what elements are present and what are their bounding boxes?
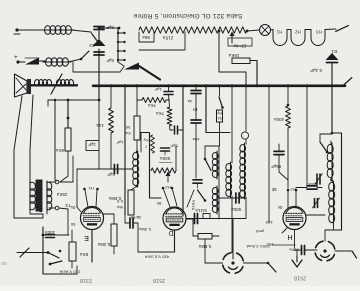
svg-text:1μF: 1μF bbox=[154, 87, 162, 92]
svg-text:86a: 86a bbox=[142, 35, 150, 40]
svg-text:2518: 2518 bbox=[153, 277, 165, 283]
svg-text:51Ka: 51Ka bbox=[191, 199, 196, 210]
svg-text:0v: 0v bbox=[156, 201, 161, 206]
svg-text:H1: H1 bbox=[276, 30, 282, 35]
svg-text:Ma: Ma bbox=[116, 205, 122, 210]
svg-text:2318: 2318 bbox=[80, 277, 92, 283]
svg-text:0,5Ma: 0,5Ma bbox=[108, 196, 121, 201]
svg-text:500a: 500a bbox=[160, 156, 170, 161]
svg-text:6μF: 6μF bbox=[107, 172, 115, 177]
svg-text:215a: 215a bbox=[162, 36, 173, 41]
svg-text:5Ka: 5Ka bbox=[79, 252, 88, 257]
svg-text:H3: H3 bbox=[316, 30, 322, 35]
svg-text:15Ka: 15Ka bbox=[228, 53, 239, 58]
svg-text:H: H bbox=[287, 233, 292, 240]
svg-text:ym5: ym5 bbox=[255, 229, 264, 234]
svg-text:H2: H2 bbox=[290, 187, 296, 192]
svg-text:+: + bbox=[14, 55, 18, 61]
svg-text:23+4a: 23+4a bbox=[233, 44, 246, 49]
svg-text:500a: 500a bbox=[231, 207, 241, 212]
svg-text:38/50: 38/50 bbox=[130, 215, 141, 220]
svg-text:Saba 321 GL Gleichstrom, 5 Röh: Saba 321 GL Gleichstrom, 5 Röhre bbox=[133, 12, 242, 19]
svg-text:0,3Ma: 0,3Ma bbox=[97, 242, 110, 247]
svg-text:Ry: Ry bbox=[217, 111, 222, 115]
svg-text:200V 2,5mA: 200V 2,5mA bbox=[246, 244, 270, 249]
svg-text:4a: 4a bbox=[187, 99, 192, 104]
svg-text:86μF: 86μF bbox=[271, 164, 282, 169]
svg-text:1μF: 1μF bbox=[88, 142, 96, 147]
svg-text:H1: H1 bbox=[88, 186, 94, 191]
svg-text:H2: H2 bbox=[295, 30, 301, 35]
svg-text:7Ka: 7Ka bbox=[156, 111, 164, 116]
svg-text:E1: E1 bbox=[331, 49, 337, 54]
svg-text:6Ka: 6Ka bbox=[56, 148, 64, 153]
svg-text:E2: E2 bbox=[89, 43, 95, 48]
svg-text:200: 200 bbox=[266, 242, 274, 247]
svg-text:51: 51 bbox=[217, 116, 221, 120]
svg-text:H2: H2 bbox=[165, 185, 171, 190]
svg-text:E: E bbox=[84, 234, 89, 241]
svg-text:50: 50 bbox=[70, 222, 75, 227]
svg-text:7Ka: 7Ka bbox=[148, 103, 156, 108]
svg-text:400: 400 bbox=[265, 220, 273, 225]
svg-text:50: 50 bbox=[125, 125, 130, 130]
svg-text:5/41a: 5/41a bbox=[195, 208, 207, 213]
svg-text:Ky: Ky bbox=[144, 138, 149, 143]
svg-text:0,1μF: 0,1μF bbox=[310, 68, 322, 73]
svg-text:6μF: 6μF bbox=[106, 25, 114, 30]
svg-text:D: D bbox=[168, 229, 173, 236]
svg-text:Dr: Dr bbox=[192, 107, 197, 112]
svg-text:25Ka: 25Ka bbox=[56, 192, 67, 197]
svg-text:2518: 2518 bbox=[294, 275, 306, 281]
svg-text:Ka: Ka bbox=[125, 131, 131, 136]
svg-text:6μF: 6μF bbox=[106, 58, 114, 63]
svg-text:41a: 41a bbox=[96, 123, 104, 128]
svg-text:T2: T2 bbox=[65, 203, 71, 208]
svg-text:0,3Ma: 0,3Ma bbox=[138, 227, 150, 232]
svg-text:5μF: 5μF bbox=[170, 144, 178, 149]
svg-text:420 V,0,3mA: 420 V,0,3mA bbox=[145, 255, 170, 260]
svg-text:0v: 0v bbox=[70, 205, 75, 210]
svg-text:5b: 5b bbox=[271, 187, 276, 192]
svg-text:400a: 400a bbox=[274, 117, 284, 122]
svg-text:210 V,4mA: 210 V,4mA bbox=[59, 270, 80, 275]
svg-text:1μF: 1μF bbox=[116, 140, 124, 145]
svg-text:50: 50 bbox=[1, 261, 7, 266]
svg-text:0v: 0v bbox=[277, 205, 282, 210]
